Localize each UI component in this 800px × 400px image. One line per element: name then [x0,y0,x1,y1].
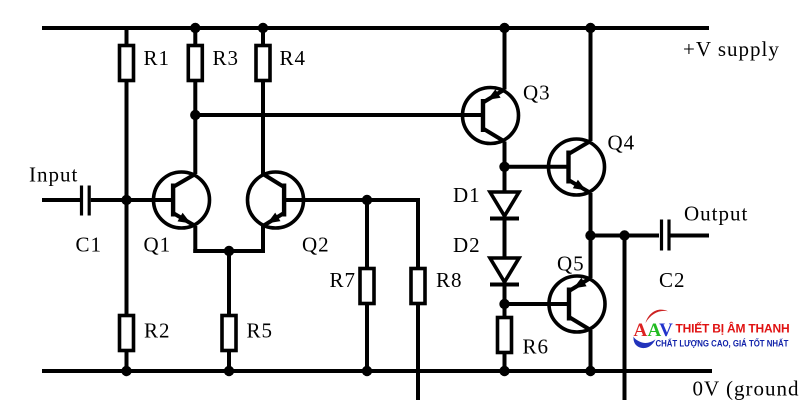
svg-text:R3: R3 [213,46,240,70]
svg-text:C1: C1 [76,233,103,257]
svg-text:Input: Input [29,163,78,187]
svg-text:0V (ground): 0V (ground) [693,377,800,400]
svg-text:Q1: Q1 [144,233,172,257]
svg-text:R4: R4 [280,46,307,70]
svg-text:D1: D1 [453,183,481,207]
svg-text:R1: R1 [144,46,171,70]
svg-text:Q4: Q4 [608,131,636,155]
svg-text:Output: Output [684,202,748,226]
svg-text:R5: R5 [247,319,274,343]
svg-text:Q2: Q2 [302,233,330,257]
svg-text:R7: R7 [330,268,357,292]
svg-text:+V supply: +V supply [683,37,780,61]
svg-text:Q5: Q5 [557,252,585,276]
svg-text:D2: D2 [453,233,481,257]
svg-text:R2: R2 [144,319,171,343]
svg-text:CHẤT LƯỢNG CAO, GIÁ TỐT NHẤT: CHẤT LƯỢNG CAO, GIÁ TỐT NHẤT [656,337,790,349]
svg-text:Q3: Q3 [523,81,551,105]
svg-text:R8: R8 [436,268,463,292]
svg-text:THIẾT BỊ ÂM THANH: THIẾT BỊ ÂM THANH [676,321,790,336]
svg-text:C2: C2 [659,268,686,292]
svg-text:R6: R6 [523,335,550,359]
